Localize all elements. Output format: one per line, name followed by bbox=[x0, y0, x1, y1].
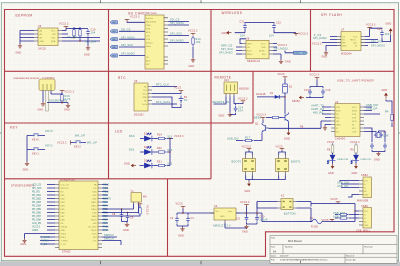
svg-text:RTC: RTC bbox=[118, 76, 126, 80]
svg-text:U7: U7 bbox=[341, 29, 345, 32]
wires right bbox=[168, 22, 189, 43]
svg-text:SCK: SCK bbox=[247, 50, 252, 52]
right wires bbox=[365, 29, 378, 45]
svg-text:4.7K: 4.7K bbox=[65, 98, 71, 101]
wires bbox=[152, 87, 177, 105]
left wires bbox=[322, 107, 331, 118]
capacitor C14 bbox=[234, 106, 238, 113]
svg-text:CH340G: CH340G bbox=[335, 137, 346, 140]
svg-text:GND: GND bbox=[352, 172, 358, 175]
svg-text:W25Q64: W25Q64 bbox=[341, 53, 352, 56]
svg-text:GND: GND bbox=[382, 89, 388, 92]
wire buzzer to collector bbox=[284, 93, 286, 114]
svg-text:SPI_MISO: SPI_MISO bbox=[170, 40, 184, 43]
svg-text:BOOT0: BOOT0 bbox=[232, 161, 242, 164]
divider V1 bbox=[108, 10, 110, 179]
svg-text:R8: R8 bbox=[300, 125, 304, 128]
resistor R16 bbox=[61, 93, 63, 103]
wire to fuse line bbox=[262, 213, 296, 222]
svg-text:MISO: MISO bbox=[247, 54, 253, 56]
svg-text:USB_DP: USB_DP bbox=[366, 108, 378, 111]
svg-text:REMOTE_IN: REMOTE_IN bbox=[213, 101, 230, 104]
svg-text:C21: C21 bbox=[240, 21, 245, 24]
svg-text:SPI_MISO: SPI_MISO bbox=[121, 53, 135, 56]
svg-text:SDA: SDA bbox=[51, 40, 56, 43]
svg-text:GND: GND bbox=[38, 109, 44, 112]
svg-text:U9: U9 bbox=[134, 80, 138, 83]
svg-text:GND: GND bbox=[21, 243, 27, 246]
svg-text:RD: RD bbox=[93, 188, 97, 190]
port SPI_SCK bbox=[110, 45, 118, 48]
svg-text:R5: R5 bbox=[327, 149, 331, 152]
svg-text:104: 104 bbox=[91, 32, 96, 35]
svg-text:PB9: PB9 bbox=[103, 223, 108, 225]
svg-text:VCC5: VCC5 bbox=[331, 198, 339, 201]
svg-text:GND: GND bbox=[23, 169, 29, 172]
wire to gnd2 bbox=[62, 103, 68, 104]
IC U9 DS1302 bbox=[134, 80, 152, 117]
resistor R12 bbox=[79, 28, 81, 38]
port SPI_MISO bbox=[110, 54, 118, 57]
svg-text:LED: LED bbox=[115, 130, 123, 134]
svg-text:VSS: VSS bbox=[146, 29, 151, 31]
svg-text:VCC3.3: VCC3.3 bbox=[299, 33, 309, 36]
svg-text:CD: CD bbox=[146, 57, 150, 59]
svg-text:220uF: 220uF bbox=[260, 219, 269, 222]
svg-text:PenDet: PenDet bbox=[146, 17, 153, 20]
svg-text:SD_CS: SD_CS bbox=[121, 28, 131, 31]
wire: SCL SDA bbox=[62, 38, 100, 42]
capacitor C3 bbox=[175, 216, 179, 223]
IC U7 W25Q64 bbox=[337, 29, 365, 56]
svg-text:C9: C9 bbox=[130, 217, 134, 220]
svg-text:USB2: USB2 bbox=[361, 205, 369, 208]
svg-text:104: 104 bbox=[269, 34, 274, 37]
svg-text:U6: U6 bbox=[38, 25, 42, 28]
svg-text:GND: GND bbox=[386, 23, 392, 26]
port SPI_MOSI bbox=[110, 38, 118, 41]
battery B1 bbox=[179, 96, 184, 104]
svg-text:CMD: CMD bbox=[146, 25, 151, 27]
right wires + labels bbox=[273, 47, 281, 60]
right wires crystal bbox=[364, 128, 376, 132]
svg-text:PD_DB8: PD_DB8 bbox=[32, 219, 42, 221]
IC U8 NRF24L01 bbox=[242, 38, 273, 63]
wire bbox=[382, 35, 391, 42]
capacitor C21 bbox=[243, 23, 247, 30]
jumper JP1 bbox=[243, 155, 256, 176]
svg-text:GND: GND bbox=[322, 56, 328, 59]
svg-text:XO: XO bbox=[336, 132, 339, 134]
svg-text:CLK: CLK bbox=[92, 240, 97, 242]
svg-text:GND: GND bbox=[178, 235, 184, 238]
svg-text:Revision: Revision bbox=[365, 247, 374, 249]
base resistor R18 bbox=[266, 117, 271, 119]
resistor R1 with VCC3.3 bbox=[102, 214, 140, 217]
vcc wire via fuse bbox=[311, 204, 359, 222]
svg-text:GND: GND bbox=[142, 97, 147, 99]
remote box right edge bbox=[252, 71, 254, 123]
gnd arrow bbox=[332, 162, 334, 164]
svg-text:VCC5: VCC5 bbox=[276, 146, 284, 149]
svg-text:VCC3.3: VCC3.3 bbox=[65, 91, 75, 94]
svg-text:R4: R4 bbox=[385, 111, 389, 114]
svg-text:R19: R19 bbox=[157, 134, 162, 137]
capacitor C4 bbox=[186, 216, 190, 223]
svg-text:R21: R21 bbox=[157, 161, 162, 164]
left wires bbox=[322, 37, 337, 43]
svg-text:CLK: CLK bbox=[146, 36, 151, 38]
wire: eeprom left bus bbox=[20, 31, 34, 45]
svg-text:VCC3.3: VCC3.3 bbox=[238, 98, 248, 101]
svg-text:GND: GND bbox=[336, 125, 341, 127]
USB2 connector bbox=[359, 208, 372, 229]
svg-text:AMS1117-3.3: AMS1117-3.3 bbox=[213, 225, 231, 228]
svg-text:PD_DB6: PD_DB6 bbox=[32, 212, 42, 214]
rail to cap bbox=[370, 27, 382, 30]
svg-text:NC: NC bbox=[144, 101, 148, 103]
svg-text:GND: GND bbox=[123, 229, 129, 232]
capacitor C5 bbox=[245, 215, 249, 222]
wire to vcc bbox=[274, 30, 296, 33]
right net label wires bbox=[102, 185, 108, 231]
svg-text:PD2: PD2 bbox=[103, 195, 108, 197]
svg-text:CSN: CSN bbox=[261, 47, 266, 49]
IC U2 CH340G bbox=[331, 101, 364, 140]
mcu pin stubs right bbox=[98, 185, 102, 248]
capacitor C19 bbox=[86, 29, 90, 36]
jumper JP2 bbox=[276, 155, 289, 176]
switch WK_UP bbox=[74, 141, 83, 143]
svg-text:VCC3.3: VCC3.3 bbox=[242, 146, 252, 149]
wire to port bbox=[273, 43, 277, 45]
IC SD1 socket bbox=[145, 12, 168, 69]
svg-text:WIRELESS: WIRELESS bbox=[222, 11, 243, 15]
gnd arrow bbox=[355, 162, 357, 164]
wire pin2 gnd bbox=[229, 97, 231, 113]
power VCC3.3 bbox=[64, 26, 69, 28]
IC U6 24C02 bbox=[34, 25, 62, 51]
svg-text:8M: 8M bbox=[143, 196, 147, 199]
svg-text:DS1: DS1 bbox=[129, 149, 135, 152]
svg-text:RTC_DaTa: RTC_DaTa bbox=[156, 101, 171, 104]
port SD_CS bbox=[110, 30, 118, 33]
svg-text:USB1: USB1 bbox=[361, 174, 369, 177]
svg-text:VDD33: VDD33 bbox=[61, 226, 69, 228]
gnd pin bbox=[325, 125, 331, 127]
svg-text:SPI_SCK: SPI_SCK bbox=[371, 40, 383, 43]
svg-text:TDD/1: TDD/1 bbox=[90, 219, 97, 221]
buzzer B1 bbox=[283, 84, 293, 93]
bottom grey margin band bbox=[0, 261, 400, 266]
svg-text:104: 104 bbox=[240, 34, 245, 37]
svg-text:MINIUSB: MINIUSB bbox=[357, 200, 369, 203]
svg-text:R17: R17 bbox=[245, 137, 251, 140]
svg-text:VCC: VCC bbox=[353, 36, 358, 38]
svg-text:VCC5: VCC5 bbox=[176, 203, 184, 206]
USB1 connector bbox=[359, 177, 372, 198]
svg-text:PD_RD: PD_RD bbox=[32, 191, 40, 193]
svg-text:VCC3.3: VCC3.3 bbox=[310, 74, 320, 77]
svg-text:LCD_CS: LCD_CS bbox=[61, 184, 70, 186]
divider V2 bbox=[210, 10, 212, 179]
svg-text:1N4148: 1N4148 bbox=[256, 93, 266, 96]
svg-text:GND: GND bbox=[64, 109, 70, 112]
resistor right edge bbox=[391, 113, 393, 123]
svg-text:R232: R232 bbox=[352, 111, 358, 113]
svg-text:PD_DB3: PD_DB3 bbox=[32, 202, 42, 204]
svg-text:Mini Borad: Mini Borad bbox=[288, 239, 302, 243]
svg-text:R6: R6 bbox=[351, 149, 355, 152]
svg-text:Sheet of: Sheet of bbox=[346, 255, 355, 258]
divider V4 bbox=[167, 179, 169, 256]
wire: pullups to rail bbox=[74, 27, 80, 28]
svg-text:Y1: Y1 bbox=[131, 190, 135, 193]
svg-text:T_MISO: T_MISO bbox=[41, 237, 50, 239]
svg-text:TXD: TXD bbox=[336, 107, 341, 109]
diode D1 1N4148 flyback bbox=[257, 96, 285, 98]
wire to cap C21 bbox=[235, 29, 245, 32]
svg-text:T_CS: T_CS bbox=[61, 244, 67, 246]
divider H1 bbox=[5, 70, 395, 72]
svg-text:C8: C8 bbox=[112, 213, 116, 216]
wires bbox=[340, 181, 359, 198]
wires ports to IC bbox=[119, 31, 145, 55]
port 5 bbox=[110, 21, 118, 24]
svg-text:VCC: VCC bbox=[261, 43, 266, 45]
svg-text:VCC3.3: VCC3.3 bbox=[57, 142, 67, 145]
svg-text:VCC3: VCC3 bbox=[174, 87, 182, 90]
svg-text:DaTa: DaTa bbox=[142, 104, 148, 106]
svg-text:HS0038: HS0038 bbox=[239, 88, 249, 91]
svg-text:File:: File: bbox=[271, 260, 276, 262]
svg-text:Q1: Q1 bbox=[255, 123, 259, 126]
wire: vcc rail bbox=[62, 29, 88, 35]
svg-text:MISO: MISO bbox=[61, 237, 67, 239]
svg-text:UD-: UD- bbox=[336, 121, 340, 123]
crystal Y2 bbox=[374, 132, 383, 138]
wire gnd pin bbox=[240, 39, 246, 44]
svg-text:SPI_MOSI: SPI_MOSI bbox=[170, 22, 184, 25]
svg-text:104: 104 bbox=[385, 33, 390, 36]
svg-text:C3: C3 bbox=[170, 217, 174, 220]
svg-text:C5: C5 bbox=[237, 218, 241, 221]
svg-text:USB_WALL: USB_WALL bbox=[356, 230, 371, 233]
svg-text:RTC_CLK: RTC_CLK bbox=[156, 84, 169, 87]
svg-text:TURBOT2L: TURBOT2L bbox=[360, 159, 372, 161]
svg-text:SPI FLASH: SPI FLASH bbox=[321, 13, 342, 17]
T1 DS18B20 TO-92 bbox=[39, 79, 55, 91]
legs bbox=[46, 91, 49, 112]
svg-text:USB_DP: USB_DP bbox=[337, 185, 349, 188]
svg-text:DB64: DB64 bbox=[91, 209, 97, 211]
transistor Q1 PNP 8550 bbox=[262, 123, 269, 133]
svg-text:S8050: S8050 bbox=[292, 100, 300, 103]
svg-text:VCC: VCC bbox=[143, 94, 148, 96]
svg-text:PD_DB1: PD_DB1 bbox=[32, 195, 42, 197]
divider H3 bbox=[5, 178, 212, 180]
resistor R6 bbox=[355, 145, 358, 155]
wire cap down bbox=[87, 37, 89, 47]
svg-text:VCC3.3: VCC3.3 bbox=[59, 23, 69, 26]
crystal Y1 bbox=[131, 190, 147, 204]
svg-text:ADD: ADD bbox=[146, 60, 151, 63]
wire pin3 vcc bbox=[234, 97, 243, 106]
svg-text:MO: MO bbox=[93, 237, 97, 239]
svg-text:PA13: PA13 bbox=[103, 225, 109, 228]
svg-text:GND: GND bbox=[219, 115, 225, 118]
capacitor C10 tantalum bbox=[255, 215, 259, 222]
svg-text:VCC3.3: VCC3.3 bbox=[257, 114, 267, 117]
capacitor C18 bbox=[380, 30, 384, 37]
gnd arrow left bbox=[226, 31, 231, 35]
svg-text:PA4: PA4 bbox=[112, 21, 115, 24]
power VCC5 bbox=[283, 77, 288, 79]
switch KEY0 bbox=[32, 134, 41, 136]
svg-text:VSS: VSS bbox=[146, 39, 151, 41]
svg-text:RD: RD bbox=[61, 191, 65, 193]
regulator U3 AMS1117 bbox=[210, 205, 240, 223]
svg-text:T_PEN: T_PEN bbox=[41, 240, 49, 242]
svg-text:BEEP: BEEP bbox=[254, 117, 262, 120]
svg-text:VCC3.3: VCC3.3 bbox=[146, 205, 149, 215]
svg-text:DB61: DB61 bbox=[91, 202, 97, 204]
wires with series resistors bbox=[335, 215, 359, 219]
svg-text:PA6: PA6 bbox=[112, 46, 115, 49]
mcu pin stubs left bbox=[55, 185, 59, 248]
svg-text:PA7: PA7 bbox=[112, 30, 115, 33]
svg-text:VCC5: VCC5 bbox=[278, 73, 286, 76]
svg-text:GND: GND bbox=[328, 172, 334, 175]
output bbox=[236, 202, 262, 216]
load capacitor C8 bbox=[120, 212, 124, 219]
svg-text:Vout: Vout bbox=[228, 210, 233, 213]
svg-text:PD_DB7: PD_DB7 bbox=[32, 216, 42, 218]
svg-text:GND: GND bbox=[247, 43, 252, 45]
svg-text:GND1: GND1 bbox=[32, 230, 39, 232]
ground bbox=[191, 58, 195, 62]
svg-text:KEY2: KEY2 bbox=[74, 146, 81, 149]
svg-text:GND: GND bbox=[284, 138, 290, 141]
gnd arrow top right bbox=[384, 93, 388, 99]
svg-text:D1: D1 bbox=[270, 92, 274, 95]
svg-text:GND: GND bbox=[220, 216, 225, 218]
svg-text:MOSI: MOSI bbox=[91, 230, 97, 232]
svg-text:10K: 10K bbox=[196, 41, 201, 44]
svg-text:PC10: PC10 bbox=[103, 184, 109, 186]
svg-text:vSS: vSS bbox=[93, 223, 97, 225]
resistor R11 bbox=[73, 28, 75, 38]
LED PWR row with gnd arrow bbox=[131, 164, 136, 168]
divider H2 bbox=[5, 122, 254, 124]
capacitor C16 bbox=[321, 89, 325, 96]
LED D4 bbox=[327, 153, 335, 164]
switch KEY1 bbox=[32, 148, 41, 150]
svg-text:VCC5: VCC5 bbox=[327, 141, 335, 144]
svg-text:WR/CLK: WR/CLK bbox=[61, 188, 70, 190]
svg-text:PA14: PA14 bbox=[103, 229, 109, 232]
svg-text:SPI_SCK: SPI_SCK bbox=[121, 44, 133, 47]
resistor R10 bbox=[192, 36, 194, 46]
template zone ticks sides bbox=[0, 132, 400, 134]
svg-text:B1: B1 bbox=[289, 86, 293, 89]
svg-text:CLK: CLK bbox=[353, 42, 358, 44]
svg-text:GND: GND bbox=[189, 65, 195, 68]
svg-text:GND: GND bbox=[84, 54, 90, 57]
svg-text:104: 104 bbox=[238, 110, 243, 113]
ground left bbox=[41, 102, 45, 106]
svg-text:C16: C16 bbox=[326, 89, 331, 92]
svg-text:STM32F103: STM32F103 bbox=[60, 179, 75, 182]
svg-text:U3: U3 bbox=[214, 205, 218, 208]
svg-text:VCC: VCC bbox=[51, 31, 56, 33]
emitter to gnd bbox=[288, 123, 290, 131]
svg-text:BOOT0: BOOT0 bbox=[103, 198, 112, 200]
svg-text:WK_UP: WK_UP bbox=[75, 135, 85, 138]
bottom rail to gnd bbox=[246, 176, 286, 182]
svg-text:K1: K1 bbox=[281, 195, 285, 198]
vcc bus bbox=[170, 139, 173, 166]
svg-text:USB_DP: USB_DP bbox=[333, 215, 345, 218]
svg-text:NRF24L01: NRF24L01 bbox=[247, 60, 261, 63]
svg-text:GND: GND bbox=[61, 230, 66, 232]
svg-text:IRQ: IRQ bbox=[262, 54, 266, 56]
template zone ticks top bbox=[101, 0, 301, 3]
svg-text:NC: NC bbox=[144, 87, 148, 89]
top rail bbox=[245, 22, 274, 25]
left wires + labels bbox=[236, 47, 242, 54]
svg-text:TURBOT2A: TURBOT2A bbox=[337, 158, 349, 161]
svg-text:R20: R20 bbox=[157, 147, 162, 150]
svg-text:DB62: DB62 bbox=[91, 205, 97, 207]
svg-text:SerDat: SerDat bbox=[146, 42, 153, 45]
svg-text:U8: U8 bbox=[246, 38, 250, 41]
wires right bbox=[297, 202, 312, 222]
svg-text:T_CS: T_CS bbox=[41, 244, 47, 246]
svg-text:LCD_RS: LCD_RS bbox=[32, 223, 42, 225]
svg-text:FUSE: FUSE bbox=[311, 226, 318, 229]
svg-text:U10: U10 bbox=[224, 79, 229, 82]
vcc to battery bbox=[152, 93, 181, 108]
svg-text:HOLD: HOLD bbox=[350, 39, 356, 41]
svg-text:CLK: CLK bbox=[143, 90, 148, 92]
svg-text:SPI_MISO: SPI_MISO bbox=[219, 51, 233, 54]
wire DQ bbox=[47, 94, 62, 103]
wires right of keys bbox=[41, 136, 46, 150]
svg-text:PD_DB5: PD_DB5 bbox=[32, 209, 42, 211]
svg-text:SPI_MOSI: SPI_MOSI bbox=[371, 45, 385, 48]
ground bbox=[18, 44, 22, 48]
ground right bbox=[66, 104, 70, 108]
svg-text:C15: C15 bbox=[304, 89, 309, 92]
wire pin1 out bbox=[214, 97, 227, 105]
svg-text:KEY0: KEY0 bbox=[46, 130, 54, 133]
svg-text:485_RE: 485_RE bbox=[313, 111, 324, 114]
svg-text:VCC3.3: VCC3.3 bbox=[312, 43, 322, 46]
svg-text:KEY1: KEY1 bbox=[46, 145, 54, 148]
svg-text:VDD2: VDD2 bbox=[61, 233, 67, 235]
svg-text:DTR: DTR bbox=[352, 118, 357, 120]
decoupling VCC3.3 bbox=[315, 77, 320, 79]
svg-text:PB4: PB4 bbox=[103, 205, 108, 207]
svg-text:MOSI: MOSI bbox=[259, 50, 265, 52]
svg-text:VCC3.3: VCC3.3 bbox=[188, 30, 198, 33]
gnd bus bottom-left bbox=[25, 234, 56, 239]
svg-text:BUTTON: BUTTON bbox=[284, 213, 296, 216]
svg-text:GND: GND bbox=[242, 231, 248, 234]
power VCC5 bbox=[336, 202, 341, 204]
svg-text:VCC5: VCC5 bbox=[322, 219, 330, 222]
